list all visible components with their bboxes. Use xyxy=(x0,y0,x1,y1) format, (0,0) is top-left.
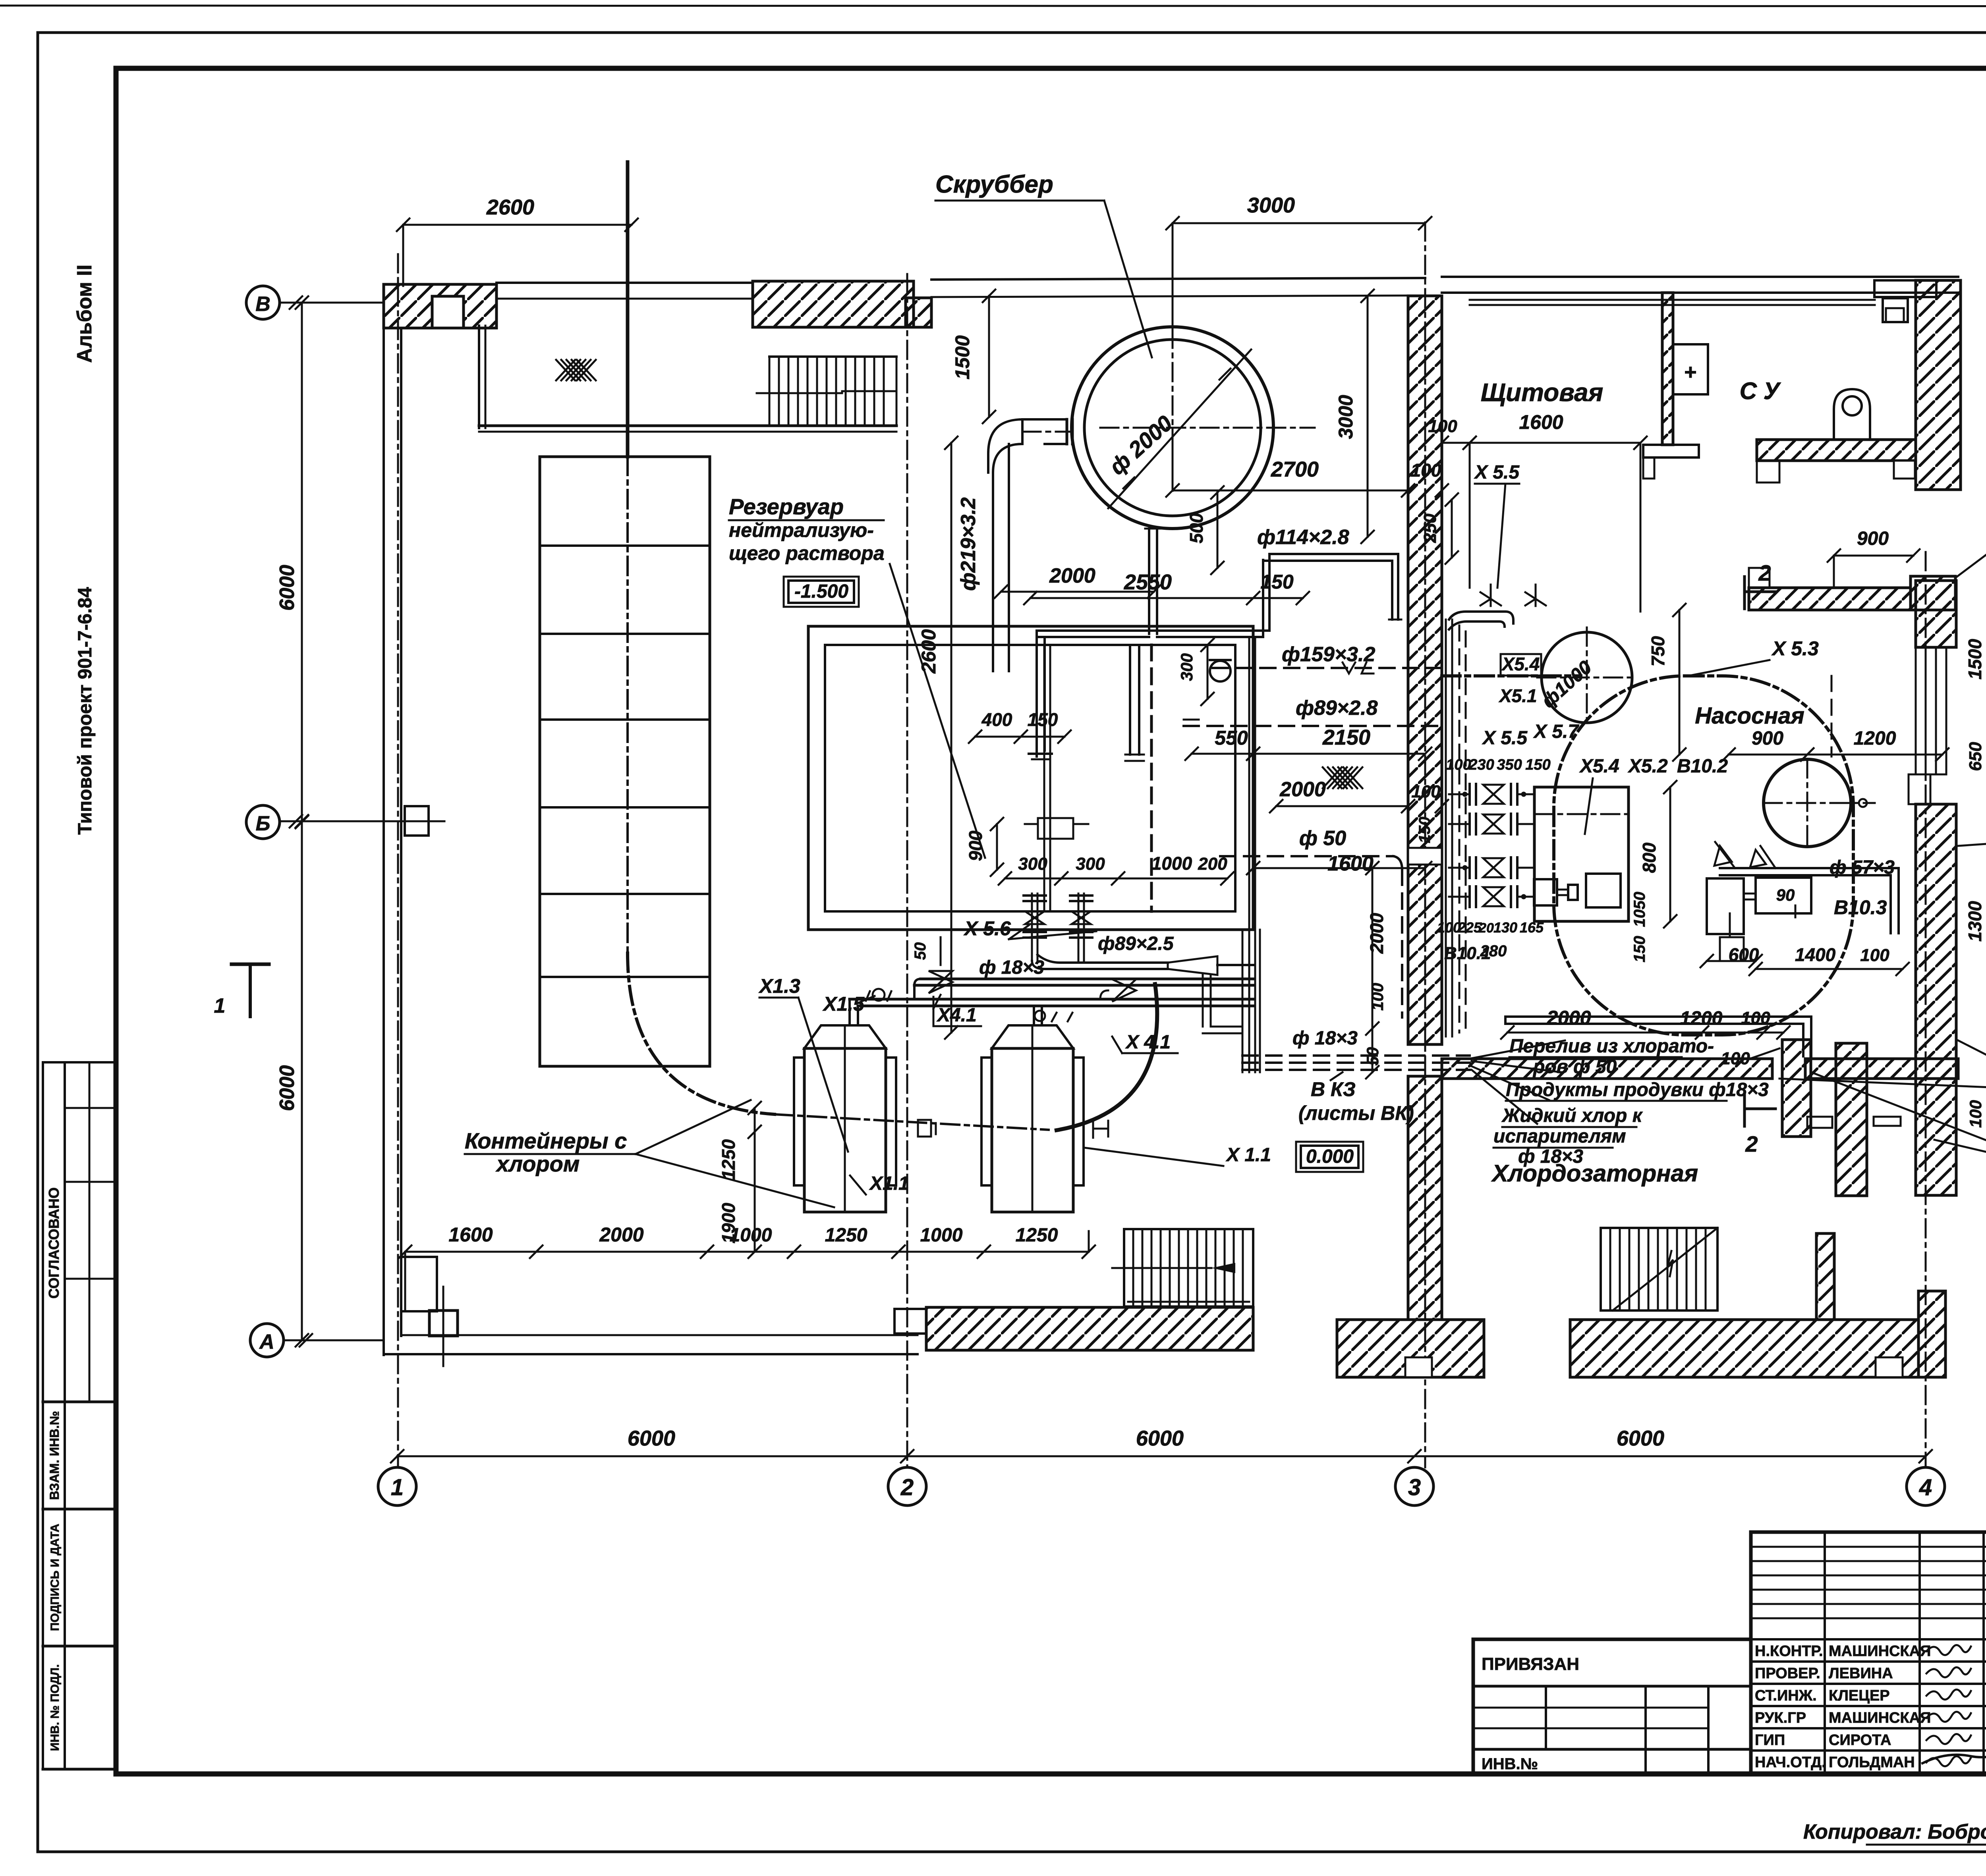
svg-text:Б: Б xyxy=(256,812,270,835)
stairs bottom right xyxy=(1601,1228,1717,1310)
wall sleeve ф50 xyxy=(1408,844,1442,869)
svg-text:900: 900 xyxy=(1857,528,1889,549)
svg-text:ПРИВЯЗАН: ПРИВЯЗАН xyxy=(1482,1654,1579,1674)
svg-text:1200: 1200 xyxy=(1680,1008,1723,1029)
fitting circle left xyxy=(866,989,891,1001)
section mark 2 bottom xyxy=(1745,1094,1775,1156)
svg-text:X5.2: X5.2 xyxy=(1627,756,1668,777)
valve battery row 3 xyxy=(1462,857,1517,878)
staff table roles xyxy=(1755,1643,1931,1771)
svg-text:300: 300 xyxy=(1177,653,1196,681)
svg-text:нейтрализую-: нейтрализую- xyxy=(729,519,874,541)
upper-left room partition wall xyxy=(479,326,896,432)
svg-text:Типовой проект 901-7-6.84: Типовой проект 901-7-6.84 xyxy=(75,587,96,835)
svg-text:2150: 2150 xyxy=(1322,726,1370,749)
label X4.1 right xyxy=(1112,1032,1178,1053)
pump B10.2 circle xyxy=(1764,759,1875,847)
label ф57x3 xyxy=(1830,857,1895,878)
svg-text:650: 650 xyxy=(1966,742,1985,771)
svg-text:20: 20 xyxy=(1478,921,1494,936)
axis line 2 xyxy=(906,274,908,1467)
level mark -1.500 xyxy=(784,577,859,607)
top wall В left section xyxy=(496,283,753,299)
pipe ф114 horizontal run xyxy=(1037,631,1269,637)
svg-text:МАШИНСКАЯ: МАШИНСКАЯ xyxy=(1829,1710,1931,1726)
top-left wall block hatched xyxy=(384,284,496,328)
svg-text:2550: 2550 xyxy=(1124,570,1172,594)
svg-text:150: 150 xyxy=(1525,757,1550,773)
dim 2000 100 bottom left vert xyxy=(1363,913,1387,1065)
svg-text:100: 100 xyxy=(1428,417,1457,436)
pipe ф159x3.2 dashed xyxy=(1213,662,1442,674)
section mark T1 left xyxy=(214,964,269,1017)
label ПОДПИСЬ И ДАТА xyxy=(48,1524,62,1631)
svg-text:ф 18×3: ф 18×3 xyxy=(979,957,1044,978)
riser bundle at tank right wall xyxy=(1242,637,1260,1072)
svg-text:Жидкий хлор к: Жидкий хлор к xyxy=(1501,1105,1643,1126)
svg-text:ГИП: ГИП xyxy=(1755,1732,1785,1749)
svg-text:900: 900 xyxy=(1752,728,1783,749)
dim 2000 1200 100 bottom xyxy=(1501,1007,1790,1039)
svg-text:1600: 1600 xyxy=(1519,411,1563,433)
axis circle А xyxy=(250,1324,384,1357)
label X1.5 xyxy=(822,993,875,1015)
svg-text:ф114×2.8: ф114×2.8 xyxy=(1257,526,1349,549)
svg-text:1250: 1250 xyxy=(718,1139,739,1180)
svg-text:6000: 6000 xyxy=(1617,1426,1664,1450)
dim 2550 150 xyxy=(1024,570,1309,604)
lintel block top right xyxy=(1874,280,1936,322)
svg-text:X 5.3: X 5.3 xyxy=(1771,637,1819,660)
label СОГЛАСОВАНО xyxy=(46,1187,62,1299)
svg-text:100: 100 xyxy=(1411,782,1441,801)
label ф18x3 container header xyxy=(979,957,1044,978)
svg-text:100: 100 xyxy=(1860,946,1889,965)
svg-text:Копировал: Боброва: Копировал: Боброва xyxy=(1803,1820,1986,1843)
svg-text:ЛЕВИНА: ЛЕВИНА xyxy=(1829,1665,1893,1682)
svg-text:400: 400 xyxy=(981,709,1012,730)
vertical dim line 2000-100-50 xyxy=(1366,862,1379,1079)
long leader lines right xyxy=(1779,1072,1986,1170)
svg-text:350: 350 xyxy=(1497,757,1522,773)
Насосная bottom wall hatched xyxy=(1442,1059,1958,1079)
dim 900 vertical tank xyxy=(965,818,1003,876)
crosshatch mark upper-left room xyxy=(556,360,596,380)
svg-text:300: 300 xyxy=(1076,854,1105,874)
dim 2600 top xyxy=(397,195,638,286)
right wall segment hatched upper xyxy=(1916,581,1956,647)
axis line 3 xyxy=(1424,222,1426,1467)
dim 900 sklad xyxy=(1828,528,1920,588)
dim 150 rotated wall xyxy=(1416,817,1433,843)
svg-text:550: 550 xyxy=(1215,727,1248,749)
svg-text:-1.500: -1.500 xyxy=(794,581,848,602)
axis3 wall footing hatched xyxy=(1337,1320,1484,1377)
svg-text:ф159×3.2: ф159×3.2 xyxy=(1282,643,1376,666)
svg-text:800: 800 xyxy=(1639,842,1660,873)
label X5.4 boxed xyxy=(1501,654,1541,676)
svg-text:(листы ВК): (листы ВК) xyxy=(1298,1102,1414,1124)
svg-text:3000: 3000 xyxy=(1335,395,1357,439)
staff table grid xyxy=(1751,1532,1986,1773)
svg-text:ПОДПИСЬ И ДАТА: ПОДПИСЬ И ДАТА xyxy=(48,1524,62,1631)
toilet symbol СУ xyxy=(1834,389,1870,440)
svg-text:100: 100 xyxy=(1741,1008,1770,1028)
X5.5 valve pair top xyxy=(1480,585,1547,606)
lower pillar hatched xyxy=(1816,1233,1834,1320)
svg-text:X1.1: X1.1 xyxy=(869,1173,909,1194)
pipe junction in tank xyxy=(1025,818,1088,839)
svg-text:6000: 6000 xyxy=(628,1426,675,1450)
axis circle 3 xyxy=(1395,1467,1433,1505)
right wall segment hatched lower xyxy=(1916,804,1956,1195)
svg-text:щего раствора: щего раствора xyxy=(729,542,885,564)
svg-text:СОГЛАСОВАНО: СОГЛАСОВАНО xyxy=(46,1187,62,1299)
privyazan table xyxy=(1473,1639,1751,1774)
dim 550 2150 xyxy=(1185,726,1432,760)
svg-text:В10.3: В10.3 xyxy=(1834,896,1887,919)
label Охлажденная вода xyxy=(1958,816,1986,884)
svg-text:3: 3 xyxy=(1408,1475,1421,1500)
partition dashed xyxy=(1831,676,1833,757)
frame bottom inner line left part xyxy=(116,1772,1473,1776)
margin text Альбом II xyxy=(73,264,96,363)
labels X5.4 X5.2 B10.2 row xyxy=(1579,756,1728,834)
svg-text:225: 225 xyxy=(1457,919,1482,936)
stairs upper-left xyxy=(757,357,896,426)
svg-text:150: 150 xyxy=(1631,936,1648,963)
axis circle Б xyxy=(246,805,444,839)
label ф18x3 bundle xyxy=(1292,1028,1358,1049)
fitting circle right xyxy=(1035,1011,1045,1021)
svg-text:X 4.1: X 4.1 xyxy=(1125,1032,1171,1053)
label X5.1 xyxy=(1498,685,1537,706)
evaporator pump unit xyxy=(1534,879,1578,905)
dim 400 150 small xyxy=(969,709,1071,743)
svg-text:1250: 1250 xyxy=(1016,1225,1058,1246)
СУ bottom wall hatched xyxy=(1757,440,1916,483)
dim 6000 left lower xyxy=(276,816,308,1347)
label Скруббер xyxy=(935,171,1152,357)
svg-text:X1.3: X1.3 xyxy=(758,975,800,997)
monorail beam grid xyxy=(540,457,710,1066)
dim 250 rotated xyxy=(1420,493,1458,564)
flanged wall elbow left xyxy=(1210,660,1231,681)
left wall axis 1 xyxy=(384,284,401,1355)
svg-text:250: 250 xyxy=(1420,513,1440,543)
svg-text:КЛЕЦЕР: КЛЕЦЕР xyxy=(1829,1687,1890,1704)
svg-text:Продукты продувки ф18×3: Продукты продувки ф18×3 xyxy=(1506,1079,1769,1100)
svg-text:1050: 1050 xyxy=(1631,892,1648,927)
dim 3000 right vertical xyxy=(1335,290,1374,543)
svg-text:230: 230 xyxy=(1468,757,1494,773)
svg-text:1000: 1000 xyxy=(1151,853,1192,874)
left margin stamp column xyxy=(43,1062,116,1769)
label ф50 xyxy=(1299,827,1346,850)
reservoir tank double-wall rect xyxy=(808,626,1253,930)
lower corridor wall left strip xyxy=(1782,1040,1832,1137)
svg-text:X 5.5: X 5.5 xyxy=(1474,462,1520,483)
dim row 300 300 1000 200 xyxy=(999,853,1234,885)
label X5.5 top xyxy=(1474,462,1520,588)
svg-text:ИНВ.№: ИНВ.№ xyxy=(1482,1755,1538,1773)
pipe ф219 elbow xyxy=(988,419,1072,671)
pipe ф57x3 xyxy=(1720,868,1899,933)
tank drop pipe dashed xyxy=(1150,645,1153,911)
dim 6000 left upper xyxy=(276,296,308,828)
svg-text:1300: 1300 xyxy=(1965,901,1985,942)
svg-text:6000: 6000 xyxy=(1136,1426,1184,1450)
dim 300 vertical small xyxy=(1177,639,1214,705)
unit B10.3 xyxy=(1707,878,1811,961)
svg-text:1000: 1000 xyxy=(920,1225,963,1246)
svg-text:А: А xyxy=(259,1330,274,1353)
label ф89x2.5 xyxy=(1098,933,1174,954)
svg-text:2: 2 xyxy=(900,1475,914,1500)
margin text Типовой проект 901-7-6.84 xyxy=(75,587,96,835)
valve battery row 2 xyxy=(1470,814,1517,834)
label Резервуар нейтрализующего раствора xyxy=(729,494,985,858)
level mark 0.000 xyxy=(1296,1142,1363,1172)
dim 500 vertical scrubber xyxy=(1186,486,1224,574)
label ф159x3.2 xyxy=(1282,643,1376,666)
label X1.1 right xyxy=(1084,1145,1271,1166)
paper top edge artifact xyxy=(0,6,1986,6)
dim 800 vertical xyxy=(1639,781,1677,928)
section mark 2 top xyxy=(1745,560,1775,609)
label Нагретая вода xyxy=(1934,1140,1986,1194)
label ф219x3.2 xyxy=(957,497,980,591)
label 90 xyxy=(1776,886,1795,917)
scrubber centerlines xyxy=(1100,330,1315,508)
svg-text:В КЗ: В КЗ xyxy=(1311,1078,1356,1100)
bottom wall right section hatched xyxy=(1570,1291,1945,1377)
pipe ф114 riser to wall xyxy=(1263,554,1401,637)
riser elbow top xyxy=(1449,612,1513,629)
svg-text:150: 150 xyxy=(1028,709,1058,730)
svg-text:1: 1 xyxy=(391,1475,404,1500)
svg-text:2000: 2000 xyxy=(1366,913,1387,954)
svg-text:6000: 6000 xyxy=(276,565,299,611)
svg-text:100: 100 xyxy=(1411,460,1441,481)
dim 1200 pump xyxy=(1801,728,1949,761)
svg-text:2000: 2000 xyxy=(1546,1007,1591,1029)
svg-text:ф 18×3: ф 18×3 xyxy=(1518,1146,1583,1167)
svg-text:СИРОТА: СИРОТА xyxy=(1829,1732,1891,1749)
fitting between containers xyxy=(918,1120,936,1137)
valve battery row 4 xyxy=(1470,886,1526,907)
label X1.1 left xyxy=(850,1173,909,1195)
label СУ xyxy=(1740,378,1781,404)
label X1.3 xyxy=(758,975,848,1152)
svg-text:ф 50: ф 50 xyxy=(1299,827,1346,850)
scrubber bottom stub pipe xyxy=(1145,529,1161,634)
svg-text:Щитовая: Щитовая xyxy=(1481,378,1603,407)
svg-text:X 5.5: X 5.5 xyxy=(1482,728,1528,749)
top wall right of axis3 xyxy=(1442,277,1958,305)
svg-text:100: 100 xyxy=(1368,983,1387,1011)
valve assembly X5.6 right xyxy=(1070,894,1092,961)
svg-text:90: 90 xyxy=(1776,886,1795,904)
right side dims 1300 100 xyxy=(1965,855,1986,1143)
signatures squiggles xyxy=(1922,1645,1986,1766)
svg-text:X 5.6: X 5.6 xyxy=(963,917,1011,940)
crosshatch mark middle xyxy=(1323,767,1362,788)
svg-text:С У: С У xyxy=(1740,378,1781,404)
svg-text:В: В xyxy=(255,293,270,316)
leader fan to pipe labels xyxy=(1472,1040,1565,1124)
svg-text:100: 100 xyxy=(1446,757,1471,773)
chlorine container X1.1 right xyxy=(981,1025,1084,1212)
svg-text:200: 200 xyxy=(1198,854,1227,874)
valve on header left X4.1 xyxy=(929,971,952,993)
svg-text:Перелив из хлорато-: Перелив из хлорато- xyxy=(1509,1036,1714,1057)
svg-text:ВЗАМ. ИНВ.№: ВЗАМ. ИНВ.№ xyxy=(47,1411,62,1500)
axis circle 2 xyxy=(888,1467,926,1505)
svg-text:ИНВ. № ПОДЛ.: ИНВ. № ПОДЛ. xyxy=(48,1664,62,1751)
svg-text:ров ф 50: ров ф 50 xyxy=(1532,1056,1617,1077)
label Жидкий хлор к испарителям xyxy=(1493,1105,1643,1167)
bottom dim line 6000x3 xyxy=(391,1426,1932,1463)
electric panel symbol xyxy=(1673,344,1708,394)
right wall niche xyxy=(1909,774,1930,804)
label Щитовая xyxy=(1481,378,1603,407)
svg-text:300: 300 xyxy=(1018,854,1047,874)
svg-text:150: 150 xyxy=(1416,817,1433,843)
label X5.3 xyxy=(1688,637,1819,676)
container A riser xyxy=(850,999,858,1025)
svg-text:РУК.ГР: РУК.ГР xyxy=(1755,1710,1806,1726)
axis line 4 xyxy=(1925,552,1927,1467)
label B10.3 xyxy=(1834,896,1887,919)
svg-text:Н.КОНТР.: Н.КОНТР. xyxy=(1755,1643,1823,1660)
dim 2000 100 middle xyxy=(1270,778,1448,813)
label Продукты продувки ф18x3 xyxy=(1506,1079,1769,1101)
monorail loop dash-dot xyxy=(1442,676,1853,1035)
tank inner partition xyxy=(1044,645,1050,911)
svg-text:испарителям: испарителям xyxy=(1493,1126,1626,1147)
svg-text:В10.2: В10.2 xyxy=(1677,756,1728,777)
svg-text:2000: 2000 xyxy=(1049,564,1095,587)
dim 50 small rotated xyxy=(912,937,941,965)
valve on header right X4.1 xyxy=(1100,979,1136,1002)
axis circle 1 xyxy=(378,1467,416,1505)
dim 1600 middle xyxy=(1247,852,1432,875)
pipe ф89x2.8 dashed xyxy=(1184,720,1442,726)
svg-text:1900: 1900 xyxy=(718,1202,739,1243)
label Контейнеры с хлором xyxy=(465,1100,834,1207)
label ВЗАМ. ИНВ.№ xyxy=(47,1411,62,1500)
svg-text:2000: 2000 xyxy=(599,1224,643,1246)
dim 2600 vertical xyxy=(918,436,958,1039)
label X5.6 xyxy=(963,917,1096,940)
label ф114x2.8 xyxy=(1257,526,1349,549)
scrubber circle xyxy=(1072,327,1273,529)
axis circle 4 xyxy=(1907,1467,1945,1505)
svg-text:Контейнеры с: Контейнеры с xyxy=(465,1128,627,1153)
chlorine header pipe ф18 upper xyxy=(914,979,1253,999)
axis circle В xyxy=(246,286,384,319)
riser pipes along wall xyxy=(1446,620,1466,1036)
label Насосная xyxy=(1695,703,1804,729)
axis3 wall hatched xyxy=(1408,296,1442,1320)
top wall hatched block 2 xyxy=(753,281,931,327)
valve battery row 1 xyxy=(1462,784,1526,805)
svg-text:X5.4: X5.4 xyxy=(1579,756,1619,777)
dim row bottom 1600..1250 xyxy=(399,1224,1095,1310)
lower corridor wall right strip xyxy=(1836,1043,1901,1196)
label X4.1 left boxed xyxy=(933,995,981,1026)
inner unit B10.1 xyxy=(1586,874,1621,907)
svg-text:750: 750 xyxy=(1648,636,1668,666)
svg-text:2: 2 xyxy=(1745,1131,1758,1156)
svg-text:Резервуар: Резервуар xyxy=(729,494,844,519)
pipe loop bottom nasosnaya xyxy=(1505,1017,1811,1056)
dim 100 1600 top right xyxy=(1428,411,1647,612)
valve assembly X5.6 left xyxy=(1024,894,1046,961)
label В КЗ (листы ВК) xyxy=(1298,1072,1414,1124)
triple dash pipe bundle to wall xyxy=(1242,1056,1470,1070)
svg-text:1250: 1250 xyxy=(825,1225,867,1246)
bottom wall left thin section xyxy=(384,1335,918,1354)
chlorine container X1.1 left xyxy=(794,1025,896,1212)
axis line 1 xyxy=(397,254,399,1467)
svg-text:ГОЛЬДМАН: ГОЛЬДМАН xyxy=(1829,1754,1915,1771)
containers centerline monorail xyxy=(775,984,1157,1130)
svg-text:150: 150 xyxy=(1260,571,1294,593)
pump discharge valves xyxy=(1714,842,1775,868)
svg-text:900: 900 xyxy=(965,830,986,861)
dim 3000 top xyxy=(1166,193,1432,330)
dim 2700 xyxy=(1166,437,1448,497)
svg-text:2600: 2600 xyxy=(918,629,940,674)
monorail centerline xyxy=(628,162,775,1114)
label Копировал Боброва xyxy=(1803,1820,1986,1845)
wall pier bottom-left xyxy=(401,1257,437,1311)
right wall window xyxy=(1916,647,1946,774)
svg-text:ПРОВЕР.: ПРОВЕР. xyxy=(1755,1665,1820,1682)
svg-text:МАШИНСКАЯ: МАШИНСКАЯ xyxy=(1829,1643,1931,1660)
top wall В right section xyxy=(931,278,1425,297)
pipe ф50 dashed xyxy=(1220,856,1402,1017)
dim 1900 1250 vertical xyxy=(718,1102,761,1258)
svg-text:1200: 1200 xyxy=(1854,728,1896,749)
chlorine pipe lower xyxy=(850,999,1253,1006)
svg-text:Альбом II: Альбом II xyxy=(73,264,96,363)
svg-text:50: 50 xyxy=(912,942,929,960)
svg-text:Скруббер: Скруббер xyxy=(935,171,1053,198)
svg-text:ф 18×3: ф 18×3 xyxy=(1292,1028,1358,1049)
svg-text:4: 4 xyxy=(1919,1475,1932,1500)
svg-text:1500: 1500 xyxy=(1965,639,1985,679)
dims 1050 150 vertical xyxy=(1631,892,1648,963)
svg-text:1400: 1400 xyxy=(1795,944,1836,965)
label X5.7 xyxy=(1533,721,1579,742)
svg-text:2: 2 xyxy=(1758,560,1771,585)
partition Щитовая/СУ xyxy=(1643,293,1699,479)
svg-text:130: 130 xyxy=(1493,919,1517,936)
svg-text:2000: 2000 xyxy=(1279,778,1326,801)
right side dims 1500 650 xyxy=(1965,602,1986,797)
svg-text:ф89×2.5: ф89×2.5 xyxy=(1098,933,1174,954)
svg-text:165: 165 xyxy=(1520,919,1544,936)
small dims 100 230 350 150 xyxy=(1446,757,1550,773)
svg-text:500: 500 xyxy=(1186,513,1207,543)
corner wall block top right hatched xyxy=(1916,280,1961,490)
container B riser xyxy=(1034,1006,1072,1025)
label X5.5 mid xyxy=(1482,728,1528,749)
svg-text:2700: 2700 xyxy=(1271,457,1319,481)
